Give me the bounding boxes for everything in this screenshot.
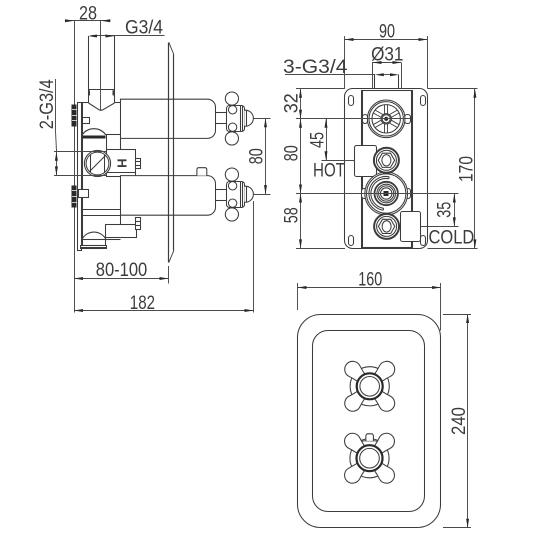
dim G3/4 top pipe bbox=[88, 35, 165, 38]
top handle (side): stem bbox=[216, 112, 227, 114]
override nub bbox=[366, 434, 374, 441]
valve body left edge bbox=[82, 103, 84, 239]
svg-text:80: 80 bbox=[282, 145, 303, 161]
supply pipe (vertical, to G3/4) bbox=[88, 36, 90, 103]
bottom handle lobes (side) bbox=[225, 168, 238, 181]
dim 182 (wall to handle tip) bbox=[74, 201, 254, 313]
svg-text:90: 90 bbox=[379, 22, 395, 43]
small connector tab right of mid block bbox=[136, 159, 141, 169]
dim 240 (front plate height) bbox=[443, 314, 471, 528]
svg-text:Ø31: Ø31 bbox=[371, 45, 403, 66]
HOT inlet circle bbox=[374, 148, 399, 173]
leader 3-G3/4 + thread dim bbox=[285, 73, 399, 76]
service valve circle bbox=[84, 150, 110, 176]
svg-text:HOT: HOT bbox=[313, 161, 345, 182]
label 2-G3/4 leader + port lines bbox=[54, 79, 106, 176]
svg-text:H: H bbox=[114, 159, 129, 168]
COLD inlet circle bbox=[374, 214, 399, 239]
svg-text:3-G3/4: 3-G3/4 bbox=[283, 57, 348, 78]
svg-text:170: 170 bbox=[457, 156, 478, 182]
top elbow dome bbox=[82, 129, 106, 135]
lower body lines bbox=[82, 209, 121, 211]
svg-text:G3/4: G3/4 bbox=[125, 18, 163, 39]
dim 160 (front plate width) bbox=[298, 283, 442, 331]
svg-text:80: 80 bbox=[247, 148, 268, 164]
bottom elbow dome bbox=[82, 232, 106, 239]
svg-text:240: 240 bbox=[449, 407, 470, 435]
dim 28 (wall to pipe centre) bbox=[65, 19, 111, 111]
bottom handle (side): stem bbox=[216, 189, 227, 191]
mid block with service circle bbox=[107, 150, 136, 177]
trim plate inner face bbox=[313, 331, 425, 512]
svg-text:58: 58 bbox=[282, 207, 303, 223]
flange anchor tab upper (dark) bbox=[72, 105, 77, 127]
bottom cartridge cylinder bbox=[121, 176, 216, 216]
wheel lugs bbox=[363, 115, 368, 124]
top handle lobes (side) bbox=[225, 92, 238, 105]
top handle dome bbox=[244, 110, 253, 126]
flange anchor tab lower (dark) bbox=[72, 186, 77, 208]
svg-text:160: 160 bbox=[358, 270, 382, 291]
top cross handle bbox=[341, 358, 398, 415]
cartridge lugs bbox=[362, 189, 368, 199]
wall flange plate bbox=[78, 103, 82, 251]
body small tab lower-left bbox=[79, 190, 89, 198]
trim plate outer bbox=[298, 315, 441, 528]
mounting plate bbox=[345, 89, 428, 249]
HOT inlet tab bbox=[355, 146, 377, 177]
svg-text:35: 35 bbox=[435, 202, 456, 218]
dim Ø31 (stub) bbox=[372, 61, 402, 64]
COLD inlet tab bbox=[401, 212, 421, 242]
top outlet wheel bbox=[367, 100, 405, 138]
top handle hub bbox=[227, 106, 245, 132]
svg-text:182: 182 bbox=[130, 293, 155, 314]
line from dome base to cartridge bbox=[106, 134, 121, 136]
corner slots bbox=[349, 96, 354, 106]
funnel bbox=[89, 103, 115, 110]
temp override nub (side) bbox=[197, 168, 207, 176]
trim plate (side) bbox=[168, 43, 170, 263]
valve body (back) bbox=[362, 91, 413, 248]
top handle small lobe arcs bbox=[228, 106, 236, 114]
dim 80 (handle spacing, side view) bbox=[254, 118, 271, 195]
left dim chain 32/80/58 bbox=[296, 89, 459, 249]
svg-text:80-100: 80-100 bbox=[96, 260, 148, 281]
bottom handle dome bbox=[244, 186, 253, 202]
top cartridge cylinder bbox=[121, 99, 216, 138]
svg-text:45: 45 bbox=[308, 132, 329, 148]
wall face / extension line bbox=[74, 21, 76, 313]
body right edge segment bbox=[120, 139, 122, 150]
dim 90 (back plate width) bbox=[345, 36, 428, 89]
dim 80-100 (wall to plate) bbox=[74, 266, 169, 284]
bottom handle hub bbox=[227, 182, 245, 208]
svg-text:28: 28 bbox=[79, 4, 97, 25]
svg-text:2-G3/4: 2-G3/4 bbox=[37, 79, 58, 129]
dim 35 bbox=[421, 194, 459, 227]
bottom handle small lobe arcs bbox=[228, 182, 236, 190]
body small tab upper-left bbox=[83, 118, 90, 124]
dim 170 (back plate height) bbox=[428, 89, 478, 249]
pipe base flange bbox=[82, 102, 89, 104]
svg-text:COLD: COLD bbox=[429, 228, 475, 249]
dim 45 bbox=[322, 119, 355, 161]
collar bbox=[360, 441, 379, 447]
elbow-to-block vertical edge bbox=[106, 135, 108, 150]
svg-text:32: 32 bbox=[282, 93, 303, 113]
top outlet stub bbox=[372, 63, 374, 89]
bottom cross handle bbox=[341, 430, 398, 487]
thermostatic cartridge circle bbox=[365, 172, 408, 215]
